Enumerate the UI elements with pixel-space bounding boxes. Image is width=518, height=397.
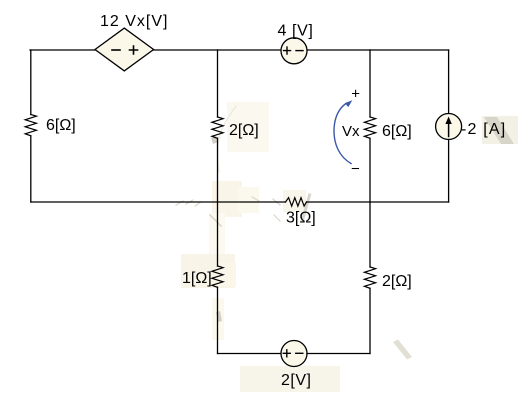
svg-text:2[V]: 2[V]: [281, 372, 311, 389]
current source I1 -2A: [436, 114, 462, 140]
svg-text:2[Ω]: 2[Ω]: [382, 273, 412, 290]
wire bottom right: [307, 353, 370, 355]
wire right-mid vertical to mid rail: [369, 138, 371, 202]
resistor R4 3ohm: [286, 198, 307, 206]
wire bottom left: [218, 353, 282, 355]
svg-text:Vx: Vx: [342, 123, 360, 140]
svg-text:+: +: [351, 86, 360, 103]
wire right-mid vertical upper: [369, 50, 371, 117]
voltage source V2 2V: [281, 341, 307, 367]
voltage source V1 4V: [281, 38, 307, 64]
resistor R5 1ohm: [212, 266, 223, 287]
svg-text:4 [V]: 4 [V]: [278, 23, 314, 40]
wire diamond to node A: [154, 49, 218, 51]
svg-text:1[Ω]: 1[Ω]: [182, 270, 212, 287]
resistor R1 6ohm left: [25, 115, 36, 136]
wire node A to 4V source: [218, 49, 282, 51]
wire left vertical upper: [30, 50, 32, 115]
dependent source E1 12Vx diamond: [95, 28, 154, 71]
wire right vertical to bottom: [369, 288, 371, 353]
wire 4V source to node B: [307, 49, 370, 51]
wire top-left horizontal: [30, 49, 95, 51]
svg-text:12 Vx[V]: 12 Vx[V]: [100, 13, 168, 30]
svg-text:2[Ω]: 2[Ω]: [229, 122, 259, 139]
wire far right vertical upper: [448, 50, 450, 114]
wire middle vertical upper: [217, 50, 219, 117]
wire middle vertical lower section: [217, 202, 219, 266]
svg-text:6[Ω]: 6[Ω]: [46, 117, 76, 134]
wire middle vertical to mid rail: [217, 138, 219, 202]
svg-text:3[Ω]: 3[Ω]: [286, 210, 316, 227]
wire right vertical lower section: [369, 202, 371, 267]
wire node B to right branch: [370, 49, 449, 51]
svg-text:-2 [A]: -2 [A]: [461, 121, 506, 138]
vx arc blue: [334, 100, 352, 163]
wire middle rail right: [307, 201, 449, 203]
resistor R6 2ohm bottom right: [364, 267, 375, 288]
svg-text:−: −: [351, 161, 360, 178]
resistor R2 2ohm middle: [212, 117, 223, 138]
wire middle vertical to bottom: [217, 287, 219, 353]
wire middle rail left: [31, 201, 286, 203]
resistor R3 6ohm right: [364, 117, 375, 138]
wire left vertical lower: [30, 136, 32, 202]
wire far right vertical lower: [448, 140, 450, 203]
watermark (decorative): [176, 102, 518, 392]
svg-text:6[Ω]: 6[Ω]: [382, 123, 412, 140]
